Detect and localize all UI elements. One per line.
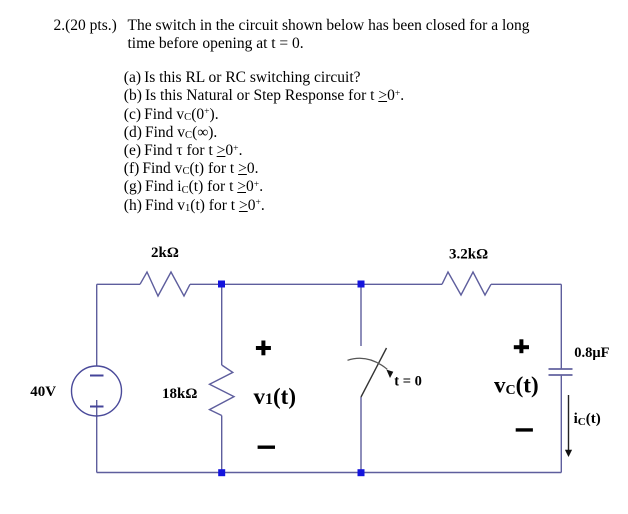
svg-text:0.8μF: 0.8μF: [574, 345, 609, 361]
svg-text:iC(t): iC(t): [574, 411, 601, 428]
switch SW blade: [361, 348, 387, 397]
voltage source V1 circle: [72, 366, 122, 416]
node bottom-right junction: [358, 469, 365, 476]
capacitor current arrow line: [568, 395, 570, 450]
svg-text:18kΩ: 18kΩ: [162, 386, 197, 402]
svg-text:3.2kΩ: 3.2kΩ: [449, 247, 488, 263]
wire left vertical upper: [96, 284, 98, 366]
wire left vertical lower: [96, 400, 98, 473]
v1 polarity plus: [256, 341, 271, 356]
wire switch branch lower: [360, 397, 362, 473]
node top-right junction: [358, 281, 365, 288]
problem statement: [128, 17, 530, 53]
wire right vertical upper: [560, 284, 562, 369]
voltage source minus bar: [90, 375, 104, 377]
wire switch branch upper: [360, 284, 362, 346]
node top-left junction: [218, 281, 225, 288]
wire top-right horizontal: [491, 283, 561, 285]
v1 polarity minus: [258, 446, 275, 449]
node bottom-left junction: [218, 469, 225, 476]
wire top-left horizontal: [97, 283, 140, 285]
problem number: [54, 17, 117, 35]
resistor R3 18kOhm zigzag: [210, 365, 235, 416]
svg-text:vC(t): vC(t): [494, 372, 539, 398]
capacitor C1 top plate: [549, 368, 573, 370]
resistor R2 3.2kOhm zigzag: [442, 272, 491, 295]
capacitor C1 bottom plate: [549, 374, 573, 376]
switch arc arrowhead: [386, 370, 393, 378]
resistor R1 2kOhm zigzag: [140, 272, 190, 296]
vc polarity plus: [514, 339, 529, 353]
question list: [124, 69, 404, 215]
svg-text:40V: 40V: [30, 384, 56, 400]
voltage source plus bar: [90, 406, 104, 408]
vc polarity minus: [516, 428, 533, 431]
svg-text:t = 0: t = 0: [394, 373, 422, 389]
wire middle branch lower: [221, 416, 223, 473]
svg-text:2kΩ: 2kΩ: [151, 245, 179, 261]
svg-text:v1(t): v1(t): [254, 384, 296, 409]
wire middle branch upper: [221, 284, 223, 365]
wire right vertical lower: [560, 375, 562, 473]
wire bottom horizontal: [97, 472, 562, 474]
switch opening arc: [348, 358, 388, 369]
wire top middle: [190, 283, 442, 285]
capacitor current arrowhead: [565, 450, 572, 457]
